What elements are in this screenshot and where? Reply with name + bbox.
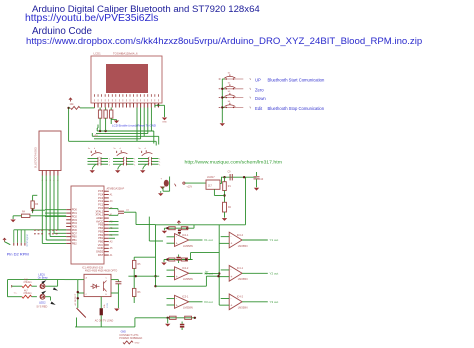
svg-text:1: 1 [124, 163, 125, 165]
svg-text:d: d [94, 148, 95, 150]
svg-text:On Beep: On Beep [38, 276, 48, 279]
svg-text:UP: UP [255, 78, 261, 83]
svg-text:A1: A1 [110, 193, 114, 196]
svg-text:Bluethooth Stop Comunication: Bluethooth Stop Comunication [268, 106, 325, 111]
svg-text:1: 1 [134, 164, 136, 166]
svg-text:RST: RST [98, 253, 104, 257]
svg-text:GND: GND [121, 330, 127, 333]
svg-text:POWER NOBREAK: POWER NOBREAK [119, 336, 142, 340]
svg-text:IC4-1: IC4-1 [237, 266, 244, 270]
svg-text:In+: In+ [205, 269, 209, 273]
svg-text:Pin D2 RPM: Pin D2 RPM [7, 252, 29, 257]
svg-text:A3: A3 [110, 241, 114, 244]
svg-text:S2: S2 [228, 83, 231, 85]
svg-text:470ohm: 470ohm [23, 282, 31, 284]
svg-text:1: 1 [124, 160, 125, 162]
svg-text:LM358N: LM358N [238, 244, 248, 248]
svg-text:+: + [161, 178, 163, 181]
svg-text:Down: Down [255, 96, 266, 101]
svg-text:1: 1 [134, 159, 136, 161]
svg-text:1: 1 [159, 159, 161, 161]
svg-text:1: 1 [99, 163, 100, 165]
svg-text:C: C [106, 278, 108, 280]
svg-text:470ohm: 470ohm [23, 293, 31, 295]
svg-text:GND: GND [135, 342, 140, 344]
svg-text:Edit: Edit [255, 106, 263, 111]
svg-text:5v: 5v [114, 148, 116, 150]
svg-text:E: E [106, 294, 108, 296]
svg-text:X3 out: X3 out [204, 300, 213, 304]
svg-text:1: 1 [159, 164, 161, 166]
svg-text:5v: 5v [88, 148, 90, 150]
svg-text:1: 1 [99, 160, 100, 162]
svg-text:S1: S1 [228, 73, 231, 75]
svg-text:317: 317 [208, 185, 213, 187]
svg-text:LM358N: LM358N [238, 306, 248, 310]
svg-text:TOSHIBA128x64_6: TOSHIBA128x64_6 [113, 52, 138, 56]
svg-text:R4: R4 [22, 212, 26, 214]
svg-text:+: + [230, 303, 232, 307]
svg-text:1: 1 [124, 157, 125, 159]
svg-text:BLUETOOTH-SMD: BLUETOOTH-SMD [35, 147, 38, 168]
svg-text:AC DETECT: AC DETECT [74, 293, 77, 306]
svg-text:S3: S3 [228, 91, 231, 93]
svg-text:AC OR TV LOAD: AC OR TV LOAD [95, 320, 114, 323]
svg-text:C10: C10 [259, 179, 264, 181]
svg-text:Bluethooth Start Comunication: Bluethooth Start Comunication [268, 78, 325, 83]
svg-text:A: A [86, 277, 88, 280]
svg-text:R2: R2 [228, 207, 232, 209]
svg-text:IC3-1: IC3-1 [182, 295, 189, 299]
svg-text:d: d [145, 148, 146, 150]
svg-text:1: 1 [149, 160, 150, 162]
svg-text:SYS RED: SYS RED [36, 306, 47, 309]
svg-text:-: - [230, 268, 232, 272]
svg-text:C9: C9 [228, 172, 232, 174]
svg-text:1: 1 [99, 157, 100, 159]
svg-text:C: C [86, 294, 88, 296]
svg-text:+: + [176, 242, 178, 246]
svg-text:ATMEGA328-P: ATMEGA328-P [107, 186, 125, 190]
svg-text:LED2: LED2 [39, 300, 46, 304]
svg-text:1: 1 [149, 157, 150, 159]
svg-text:R6: R6 [138, 292, 142, 294]
svg-text:10k: 10k [104, 304, 106, 308]
svg-text:5v+: 5v+ [14, 292, 18, 294]
svg-text:Q1: Q1 [126, 210, 130, 212]
svg-text:10k: 10k [70, 103, 75, 106]
svg-text:X1 out: X1 out [204, 238, 213, 242]
svg-text:4N25 4N35 4N26 4N28 OPTO: 4N25 4N35 4N26 4N28 OPTO [85, 270, 117, 273]
svg-text:IC2-2: IC2-2 [182, 266, 189, 270]
svg-text:IC2-1: IC2-1 [182, 233, 189, 237]
svg-text:1: 1 [159, 162, 161, 164]
svg-text:R5: R5 [138, 264, 142, 266]
svg-text:Y3 out: Y3 out [270, 300, 279, 304]
svg-text:LM358N: LM358N [238, 277, 248, 281]
svg-text:LCD1: LCD1 [94, 52, 102, 56]
svg-text:1: 1 [134, 162, 136, 164]
svg-text:Y1 out: Y1 out [270, 238, 279, 242]
svg-text:IC3-2: IC3-2 [237, 233, 244, 237]
svg-text:http://www.muzique.com/schem/l: http://www.muzique.com/schem/lm317.htm [185, 160, 283, 166]
svg-text:+: + [176, 275, 178, 279]
svg-text:LCD Enable (must) Reset To GND: LCD Enable (must) Reset To GND [112, 123, 156, 127]
svg-text:LM358N: LM358N [183, 244, 193, 248]
svg-text:d: d [120, 148, 121, 150]
svg-text:R1: R1 [228, 186, 232, 188]
svg-text:GND: GND [162, 122, 167, 124]
svg-text:S4: S4 [228, 101, 231, 103]
svg-text:-: - [230, 234, 232, 238]
svg-text:+12V: +12V [186, 185, 192, 188]
svg-text:-: - [230, 296, 232, 300]
svg-text:LM358N: LM358N [183, 277, 193, 281]
svg-text:PB2: PB2 [72, 241, 77, 245]
svg-text:1: 1 [109, 164, 111, 166]
svg-text:Y2 out: Y2 out [270, 272, 279, 276]
svg-text:1: 1 [109, 162, 111, 164]
svg-text:A5: A5 [110, 247, 114, 250]
svg-text:RPM signal: RPM signal [26, 234, 29, 247]
svg-text:LM317: LM317 [207, 176, 215, 179]
svg-text:1: 1 [149, 163, 150, 165]
svg-text:Zero: Zero [255, 87, 264, 92]
svg-text:IC4-2: IC4-2 [237, 295, 244, 299]
svg-text:A3: A3 [110, 200, 114, 203]
svg-text:A1: A1 [110, 254, 114, 257]
svg-text:1/2W: 1/2W [107, 303, 109, 308]
svg-text:+: + [230, 242, 232, 246]
svg-text:5v: 5v [139, 148, 141, 150]
svg-text:R3: R3 [35, 204, 39, 206]
svg-text:LM358N: LM358N [183, 306, 193, 310]
svg-text:+: + [176, 303, 178, 307]
svg-text:+5V: +5V [93, 134, 98, 138]
svg-text:1: 1 [109, 159, 111, 161]
svg-text:+: + [230, 275, 232, 279]
